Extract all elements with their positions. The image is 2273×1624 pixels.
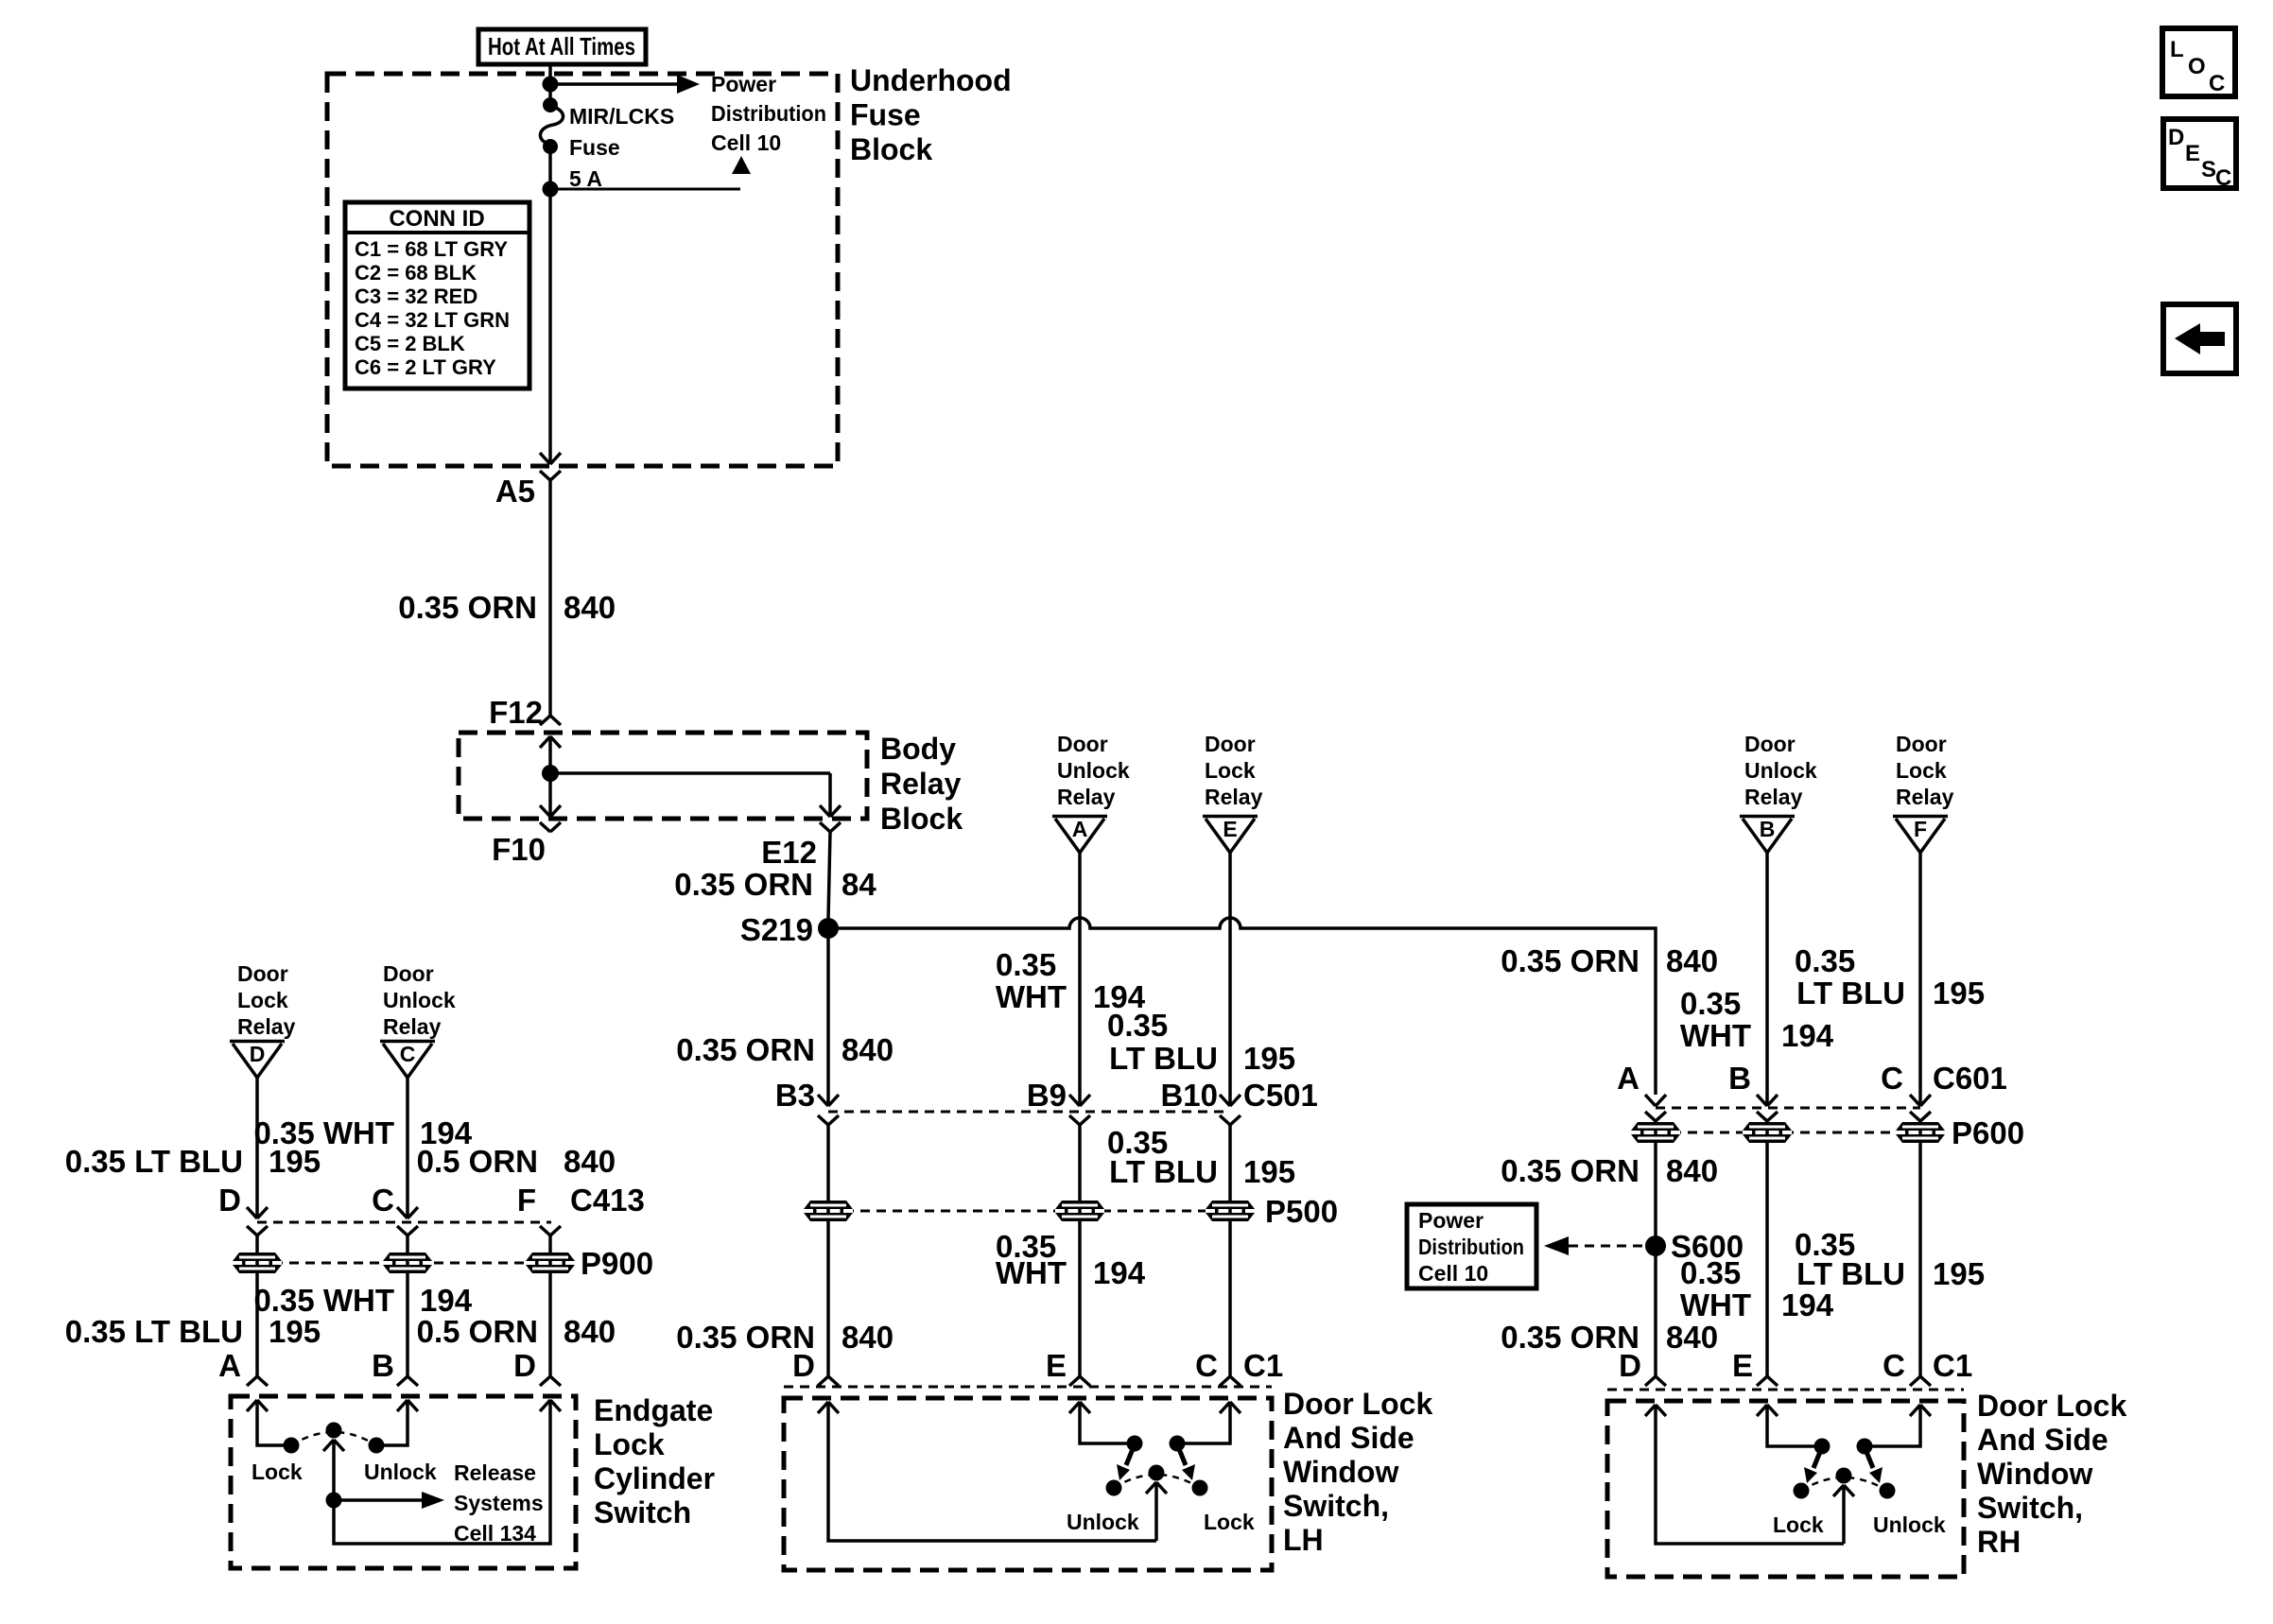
LH switch pin C feed to right contact <box>1170 1402 1241 1452</box>
svg-text:0.35 LT BLU: 0.35 LT BLU <box>65 1144 243 1179</box>
svg-text:Switch,: Switch, <box>1977 1491 2083 1525</box>
wire label 0.35 WHT 194 <box>253 1115 472 1150</box>
svg-text:LT BLU: LT BLU <box>1109 1154 1218 1189</box>
svg-text:E: E <box>1732 1348 1753 1383</box>
wire label 0.35 WHT 194 (B col lower) <box>1680 1255 1834 1322</box>
svg-text:E: E <box>1046 1348 1067 1383</box>
relay triangle C <box>380 1042 435 1079</box>
svg-text:Door: Door <box>1057 732 1108 756</box>
svg-text:D: D <box>1619 1348 1641 1383</box>
relay triangle D <box>230 1042 285 1079</box>
svg-text:Relay: Relay <box>237 1014 296 1039</box>
svg-text:WHT: WHT <box>1680 1018 1751 1053</box>
Hot At All Times box <box>478 29 646 64</box>
pin labels D C F C413 <box>218 1183 645 1218</box>
wires C413 to P900 and endgate switch <box>257 1235 550 1376</box>
LH switch right throw arm <box>1177 1444 1195 1480</box>
svg-text:Cylinder: Cylinder <box>594 1461 715 1495</box>
inline connector P900 row <box>233 1246 653 1281</box>
svg-text:WHT: WHT <box>996 979 1067 1014</box>
svg-text:D: D <box>513 1348 536 1383</box>
svg-text:C: C <box>2215 165 2231 191</box>
RH switch lower contacts with dashed arc <box>1794 1468 1896 1499</box>
LH switch pin E feed to left contact <box>1069 1402 1143 1452</box>
svg-text:0.35: 0.35 <box>1107 1008 1168 1043</box>
RH switch actuator arrow <box>1833 1485 1854 1544</box>
svg-text:840: 840 <box>1666 943 1718 978</box>
svg-text:C5 = 2 BLK: C5 = 2 BLK <box>355 332 465 355</box>
svg-text:0.35 ORN: 0.35 ORN <box>1501 943 1640 978</box>
wire label 0.35 ORN 840 (B3 lower) <box>676 1320 894 1355</box>
endgate switch pivot with dashed arc <box>291 1423 376 1446</box>
svg-text:A: A <box>1072 817 1088 841</box>
label Door Lock Relay (left) <box>237 961 296 1039</box>
splice S600 <box>1645 1229 1744 1264</box>
svg-text:F10: F10 <box>492 832 546 867</box>
RH switch right throw arm <box>1865 1447 1883 1483</box>
svg-text:0.35 ORN: 0.35 ORN <box>1501 1153 1640 1188</box>
svg-text:840: 840 <box>564 1144 616 1179</box>
pin labels A B D <box>218 1348 536 1383</box>
Door Lock And Side Window Switch LH dashed box <box>784 1398 1272 1570</box>
svg-text:C4 = 32 LT GRN: C4 = 32 LT GRN <box>355 308 510 332</box>
node to release systems <box>326 1492 445 1509</box>
svg-text:E12: E12 <box>761 835 817 870</box>
svg-text:L: L <box>2170 37 2184 62</box>
wire from relay D to connector C413 <box>247 1078 268 1218</box>
svg-text:B9: B9 <box>1027 1078 1067 1113</box>
svg-text:B: B <box>1728 1061 1751 1096</box>
svg-text:Cell 10: Cell 10 <box>1418 1261 1488 1286</box>
svg-text:A: A <box>1617 1061 1640 1096</box>
pin labels A B C C601 <box>1617 1061 2007 1096</box>
svg-text:LH: LH <box>1283 1523 1324 1557</box>
chevrons below C601 <box>1645 1112 1931 1121</box>
svg-text:C1 = 68 LT GRY: C1 = 68 LT GRY <box>355 237 508 261</box>
svg-text:And Side: And Side <box>1977 1423 2108 1457</box>
endgate switch actuator arrow <box>323 1440 344 1500</box>
wire label 0.35 ORN 840 (A col) <box>1501 943 1718 978</box>
svg-text:Door: Door <box>1205 732 1256 756</box>
wire relay B down to C601 <box>1757 853 1778 1106</box>
svg-text:Lock: Lock <box>252 1460 303 1484</box>
svg-text:D: D <box>792 1348 815 1383</box>
RH switch pin E feed to left contact <box>1757 1405 1831 1455</box>
chevron exit E12 <box>820 822 841 832</box>
labels Unlock Lock (LH) <box>1067 1510 1255 1534</box>
svg-text:D: D <box>2168 125 2184 150</box>
svg-text:C: C <box>2209 71 2225 96</box>
svg-text:F: F <box>1914 817 1927 841</box>
svg-text:Unlock: Unlock <box>364 1460 437 1484</box>
svg-text:194: 194 <box>1781 1287 1834 1322</box>
pin labels D E C C1 (LH switch) <box>792 1348 1283 1383</box>
label Door Unlock Relay (left) <box>383 961 456 1039</box>
label Power Distribution Cell 10 <box>711 72 826 155</box>
LH switch left throw arm <box>1117 1444 1135 1480</box>
wire label 0.35 WHT 194 (below P900) <box>253 1283 472 1318</box>
svg-text:MIR/LCKS: MIR/LCKS <box>569 104 674 129</box>
svg-text:Unlock: Unlock <box>1744 758 1817 783</box>
Door Lock And Side Window Switch RH dashed box <box>1607 1401 1964 1577</box>
Endgate Lock Cylinder Switch dashed box <box>231 1396 576 1568</box>
svg-text:Door: Door <box>1896 732 1947 756</box>
label MIR/LCKS Fuse 5 A <box>569 104 674 191</box>
svg-text:C501: C501 <box>1243 1078 1318 1113</box>
svg-text:Door: Door <box>237 961 288 986</box>
svg-text:Unlock: Unlock <box>1067 1510 1139 1534</box>
svg-text:840: 840 <box>564 590 616 625</box>
svg-text:Endgate: Endgate <box>594 1393 713 1427</box>
pin label F10 <box>492 832 546 867</box>
svg-text:Switch,: Switch, <box>1283 1489 1389 1523</box>
RH switch left throw arm <box>1804 1447 1822 1483</box>
label Door Lock And Side Window Switch LH <box>1283 1387 1432 1557</box>
svg-text:194: 194 <box>420 1283 473 1318</box>
svg-text:LT BLU: LT BLU <box>1109 1041 1218 1076</box>
LH switch lower contacts with dashed arc <box>1106 1465 1208 1496</box>
chevrons below C501 <box>818 1115 1241 1125</box>
wire-end chevrons above LH switch <box>818 1376 1241 1386</box>
svg-text:C: C <box>1195 1348 1218 1383</box>
svg-text:Cell 134: Cell 134 <box>454 1521 536 1546</box>
svg-text:Fuse: Fuse <box>569 135 620 160</box>
svg-text:840: 840 <box>1666 1153 1718 1188</box>
svg-text:P900: P900 <box>581 1246 653 1281</box>
wire from Hot At All Times into fuse block <box>548 64 552 84</box>
svg-text:C2 = 68 BLK: C2 = 68 BLK <box>355 261 477 285</box>
svg-text:Block: Block <box>850 132 932 166</box>
endgate switch pin B feed to Unlock contact <box>369 1400 419 1454</box>
svg-text:Unlock: Unlock <box>1873 1512 1946 1537</box>
svg-text:Lock: Lock <box>1773 1512 1824 1537</box>
chevrons below C413 <box>247 1226 561 1235</box>
wire label 0.35 ORN 840 <box>398 590 616 625</box>
svg-text:Relay: Relay <box>1896 785 1954 809</box>
svg-text:195: 195 <box>1243 1154 1295 1189</box>
arrow at end of S219 branch wire <box>1645 1095 1666 1106</box>
svg-text:Systems: Systems <box>454 1491 544 1515</box>
pin label E12 <box>761 835 817 870</box>
svg-text:Lock: Lock <box>1896 758 1947 783</box>
svg-text:840: 840 <box>842 1320 894 1355</box>
wires C501 to P500 to LH switch <box>828 1125 1230 1376</box>
svg-text:CONN ID: CONN ID <box>389 206 484 232</box>
svg-text:WHT: WHT <box>996 1255 1067 1290</box>
svg-text:Window: Window <box>1283 1455 1398 1489</box>
svg-text:Relay: Relay <box>1744 785 1803 809</box>
svg-text:B10: B10 <box>1160 1078 1218 1113</box>
svg-text:0.35: 0.35 <box>1680 986 1741 1021</box>
svg-text:WHT: WHT <box>1680 1287 1751 1322</box>
svg-text:P500: P500 <box>1265 1194 1338 1229</box>
wire E12 down to S219 <box>828 832 830 919</box>
inline connector P600 row <box>1631 1115 2024 1150</box>
relay triangle F <box>1893 817 1948 854</box>
wires C601 through P600 to RH switch <box>1656 1121 1920 1376</box>
svg-text:Relay: Relay <box>880 767 962 801</box>
svg-text:Lock: Lock <box>237 988 288 1012</box>
label Door Unlock Relay (right) <box>1744 732 1817 809</box>
svg-text:Lock: Lock <box>1205 758 1256 783</box>
wire label 0.35 ORN 84 <box>674 867 876 902</box>
svg-text:B3: B3 <box>775 1078 815 1113</box>
Body Relay Block dashed box <box>459 733 867 819</box>
svg-text:RH: RH <box>1977 1525 2021 1559</box>
back arrow icon box <box>2163 304 2236 373</box>
svg-text:0.5 ORN: 0.5 ORN <box>417 1314 538 1349</box>
DESC icon box <box>2163 119 2236 191</box>
svg-text:0.35: 0.35 <box>996 947 1056 982</box>
chevron exit F10 <box>540 822 561 832</box>
svg-text:0.35 WHT: 0.35 WHT <box>253 1283 394 1318</box>
wire down to A5 <box>540 189 561 464</box>
wire label 0.35 LT BLU 195 (F col) <box>1795 943 1985 1011</box>
svg-text:F12: F12 <box>489 695 543 730</box>
svg-text:D: D <box>250 1042 266 1066</box>
wire label 0.35 ORN 840 (A col mid) <box>1501 1153 1718 1188</box>
dashed arrow from S600 to Power Distribution <box>1544 1236 1647 1255</box>
wire label 0.35 LT BLU 195 (F col lower) <box>1795 1227 1985 1291</box>
svg-text:Door Lock: Door Lock <box>1283 1387 1432 1421</box>
wire label 0.35 WHT 194 (B9) <box>996 947 1146 1014</box>
connector exit A5 chevron <box>540 471 561 480</box>
svg-text:840: 840 <box>564 1314 616 1349</box>
svg-text:195: 195 <box>269 1144 321 1179</box>
wire label 0.35 LT BLU 195 (below P900) <box>65 1314 321 1349</box>
svg-text:84: 84 <box>842 867 876 902</box>
LOC icon box <box>2162 28 2235 96</box>
svg-text:Hot At All Times: Hot At All Times <box>488 32 635 60</box>
svg-text:D: D <box>218 1183 241 1218</box>
svg-text:Door: Door <box>383 961 434 986</box>
svg-text:B: B <box>372 1348 394 1383</box>
svg-text:S: S <box>2201 157 2216 182</box>
LH switch pin D feed wire <box>818 1402 1156 1541</box>
svg-text:Fuse: Fuse <box>850 98 921 132</box>
svg-text:E: E <box>2185 141 2200 166</box>
wire label 0.35 ORN 840 (A col lower) <box>1501 1320 1718 1355</box>
Underhood Fuse Block dashed box <box>327 74 838 466</box>
wire label 0.35 ORN 840 (B3) <box>676 1032 894 1067</box>
svg-text:Block: Block <box>880 802 963 836</box>
svg-text:Window: Window <box>1977 1457 2092 1491</box>
inline connector P500 row <box>804 1194 1338 1229</box>
pin label F12 <box>489 695 543 730</box>
splice S219 <box>740 912 839 947</box>
label Endgate Lock Cylinder Switch <box>594 1393 715 1529</box>
relay triangle A <box>1052 817 1107 854</box>
RH switch pin D feed wire <box>1645 1405 1844 1544</box>
svg-text:0.35: 0.35 <box>1795 943 1855 978</box>
svg-text:E: E <box>1223 817 1237 841</box>
LH switch actuator arrow <box>1146 1482 1167 1541</box>
wire S219 horizontal run with hops to right column <box>828 918 1656 1095</box>
labels Lock Unlock (RH) <box>1773 1512 1946 1537</box>
CONN ID table <box>345 202 529 389</box>
svg-text:194: 194 <box>1093 1255 1146 1290</box>
wire 840 from A5 to F12 <box>548 480 552 716</box>
svg-text:Relay: Relay <box>1205 785 1263 809</box>
svg-text:195: 195 <box>1933 976 1985 1011</box>
svg-text:Door Lock: Door Lock <box>1977 1389 2126 1423</box>
svg-text:P600: P600 <box>1952 1115 2024 1150</box>
svg-text:Unlock: Unlock <box>383 988 456 1012</box>
svg-text:A: A <box>218 1348 241 1383</box>
svg-text:C601: C601 <box>1933 1061 2007 1096</box>
svg-text:C: C <box>1883 1348 1905 1383</box>
wire label 0.35 WHT 194 (below P500) <box>996 1229 1146 1290</box>
svg-text:Relay: Relay <box>1057 785 1116 809</box>
svg-text:C: C <box>400 1042 416 1066</box>
svg-text:0.35 ORN: 0.35 ORN <box>676 1032 815 1067</box>
wire relay A down to C501 <box>1069 853 1090 1106</box>
svg-text:0.35 ORN: 0.35 ORN <box>674 867 813 902</box>
wire inside body relay block F12 to F10/E12 <box>540 736 841 817</box>
label Door Lock Relay (middle) <box>1205 732 1263 809</box>
svg-text:Power: Power <box>711 72 776 96</box>
svg-text:194: 194 <box>1781 1018 1834 1053</box>
wire-end chevrons above RH switch <box>1645 1376 1931 1386</box>
svg-text:Lock: Lock <box>594 1427 665 1461</box>
wire arrow to Power Distribution <box>550 75 700 94</box>
pin labels D E C C1 (RH switch) <box>1619 1348 1972 1383</box>
endgate switch pin A feed to Lock contact <box>247 1400 300 1454</box>
label Door Lock And Side Window Switch RH <box>1977 1389 2126 1559</box>
endgate switch pin D feed wire <box>334 1400 561 1544</box>
svg-text:C1: C1 <box>1933 1348 1972 1383</box>
svg-text:Door: Door <box>1744 732 1796 756</box>
svg-text:S219: S219 <box>740 912 813 947</box>
labels Lock Unlock (endgate) <box>252 1460 437 1484</box>
svg-text:Underhood: Underhood <box>850 63 1012 97</box>
svg-text:B: B <box>1760 817 1776 841</box>
svg-text:LT BLU: LT BLU <box>1796 1256 1905 1291</box>
svg-text:Power: Power <box>1418 1208 1484 1233</box>
connector C1 dashed line (LH) <box>784 1386 1272 1389</box>
wire label 0.35 LT BLU 195 <box>65 1144 321 1179</box>
relay triangle E <box>1203 817 1258 854</box>
node junction at top of fuse <box>543 77 559 93</box>
svg-text:0.5 ORN: 0.5 ORN <box>417 1144 538 1179</box>
svg-text:840: 840 <box>842 1032 894 1067</box>
svg-text:5 A: 5 A <box>569 166 602 191</box>
wire label 0.5 ORN 840 <box>417 1144 616 1179</box>
connector C501 dashed line <box>828 1111 1230 1114</box>
label Door Lock Relay (right) <box>1896 732 1954 809</box>
svg-text:Relay: Relay <box>383 1014 442 1039</box>
svg-text:O: O <box>2188 54 2206 79</box>
svg-text:C413: C413 <box>570 1183 645 1218</box>
label Body Relay Block <box>880 732 963 836</box>
RH switch pin C feed to right contact <box>1857 1405 1932 1455</box>
wire S219 down to C501 <box>818 928 839 1106</box>
svg-text:Release: Release <box>454 1460 536 1485</box>
connector C413 dashed line <box>257 1221 551 1224</box>
svg-text:C: C <box>372 1183 394 1218</box>
svg-text:Lock: Lock <box>1204 1510 1255 1534</box>
wire label 0.35 LT BLU 195 (B10) <box>1107 1008 1295 1076</box>
wire-end chevrons above endgate switch <box>247 1376 561 1386</box>
svg-text:195: 195 <box>1933 1256 1985 1291</box>
svg-text:Unlock: Unlock <box>1057 758 1130 783</box>
wire relay F down to C601 <box>1910 853 1931 1106</box>
svg-text:840: 840 <box>1666 1320 1718 1355</box>
wire from relay C to connector C413 <box>397 1078 418 1218</box>
svg-text:Body: Body <box>880 732 956 766</box>
svg-text:And Side: And Side <box>1283 1421 1414 1455</box>
wire label 0.35 WHT 194 (B col) <box>1680 986 1834 1053</box>
svg-text:C: C <box>1881 1061 1903 1096</box>
wire relay E down to C501 <box>1220 853 1241 1106</box>
wire label 0.35 LT BLU 195 (above P500) <box>1107 1125 1295 1189</box>
svg-text:F: F <box>517 1183 536 1218</box>
Power Distribution Cell 10 box <box>1407 1204 1536 1288</box>
fuse MIR/LCKS 5 A <box>540 84 563 189</box>
svg-text:LT BLU: LT BLU <box>1796 976 1905 1011</box>
wire label 0.5 ORN 840 (below P900) <box>417 1314 616 1349</box>
svg-text:0.35 LT BLU: 0.35 LT BLU <box>65 1314 243 1349</box>
svg-text:Distribution: Distribution <box>1418 1235 1524 1259</box>
triangle pointer below Cell 10 <box>732 156 751 174</box>
svg-text:C1: C1 <box>1243 1348 1283 1383</box>
node below fuse with stub wire <box>543 181 741 198</box>
svg-text:Switch: Switch <box>594 1495 691 1529</box>
chevron entering body relay block <box>540 716 561 725</box>
svg-text:Distribution: Distribution <box>711 101 826 126</box>
svg-text:C6 = 2 LT GRY: C6 = 2 LT GRY <box>355 355 496 379</box>
label Underhood Fuse Block <box>850 63 1012 166</box>
label Release Systems Cell 134 <box>454 1460 544 1546</box>
svg-text:195: 195 <box>1243 1041 1295 1076</box>
svg-text:C3 = 32 RED: C3 = 32 RED <box>355 285 477 308</box>
svg-text:Cell 10: Cell 10 <box>711 130 781 155</box>
label Door Unlock Relay (middle) <box>1057 732 1130 809</box>
svg-text:195: 195 <box>269 1314 321 1349</box>
pin label A5 <box>495 474 535 509</box>
svg-text:0.35: 0.35 <box>1680 1255 1741 1290</box>
relay triangle B <box>1740 817 1795 854</box>
connector C601 dashed line <box>1656 1107 1920 1110</box>
pin labels B3 B9 B10 C501 <box>775 1078 1318 1113</box>
connector C1 dashed line (RH) <box>1607 1389 1964 1391</box>
svg-text:0.35 ORN: 0.35 ORN <box>398 590 537 625</box>
svg-text:A5: A5 <box>495 474 535 509</box>
